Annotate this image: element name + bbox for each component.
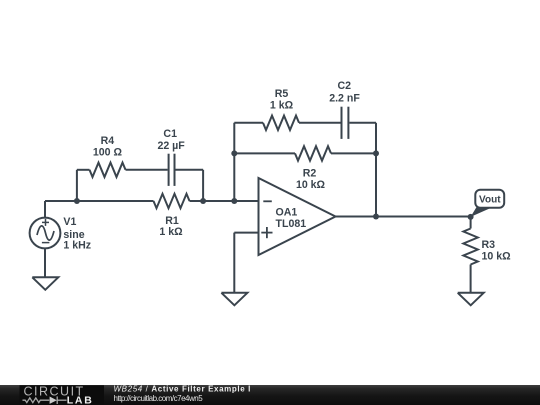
svg-text:100 Ω: 100 Ω [93, 146, 123, 158]
svg-text:22 µF: 22 µF [157, 140, 185, 152]
svg-text:R3: R3 [482, 239, 496, 251]
svg-text:10 kΩ: 10 kΩ [296, 179, 326, 191]
svg-text:OA1: OA1 [276, 206, 298, 218]
svg-text:C2: C2 [338, 80, 352, 92]
svg-text:1 kΩ: 1 kΩ [159, 226, 183, 238]
svg-text:2.2 nF: 2.2 nF [329, 93, 360, 105]
svg-text:TL081: TL081 [276, 218, 307, 230]
svg-text:WB254 / Active Filter Example: WB254 / Active Filter Example I [114, 385, 252, 394]
svg-text:http://circuitlab.com/c7e4wn5: http://circuitlab.com/c7e4wn5 [114, 394, 204, 403]
svg-text:10 kΩ: 10 kΩ [482, 250, 512, 262]
svg-text:1 kΩ: 1 kΩ [270, 100, 294, 112]
svg-text:Vout: Vout [479, 195, 501, 206]
svg-text:V1: V1 [63, 216, 76, 228]
svg-text:R2: R2 [303, 167, 317, 179]
svg-text:C1: C1 [163, 128, 177, 140]
svg-text:1 kHz: 1 kHz [63, 240, 91, 252]
svg-text:R5: R5 [275, 88, 289, 100]
svg-text:LAB: LAB [67, 395, 94, 405]
svg-text:R4: R4 [101, 135, 115, 147]
